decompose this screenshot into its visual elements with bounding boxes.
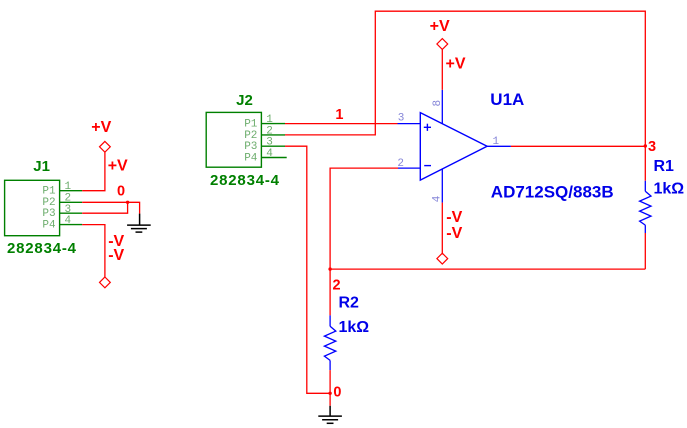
- J1 pin P1 stub: [60, 190, 83, 192]
- svg-text:282834-4: 282834-4: [210, 172, 280, 189]
- svg-text:1: 1: [335, 107, 343, 123]
- wire J2.P3 down to node 0 (bottom): [285, 146, 330, 393]
- op-amp plus symbol: [424, 124, 431, 131]
- connector J2 body: [206, 112, 261, 167]
- svg-text:2: 2: [397, 158, 404, 170]
- svg-text:J2: J2: [236, 92, 253, 109]
- U1A pin 1 stub (output): [487, 145, 511, 147]
- junction node 0 (bottom): [328, 392, 331, 395]
- svg-text:J1: J1: [33, 158, 50, 175]
- wire R1 bottom to node 2 rail: [644, 233, 646, 269]
- svg-text:0: 0: [117, 184, 125, 200]
- power -V symbol at J1 (diamond): [100, 277, 111, 288]
- svg-text:282834-4: 282834-4: [7, 240, 77, 257]
- svg-text:0: 0: [333, 384, 341, 400]
- svg-text:3: 3: [648, 139, 656, 155]
- svg-text:+V: +V: [446, 56, 466, 73]
- svg-text:P1: P1: [244, 119, 258, 131]
- svg-text:P3: P3: [244, 141, 257, 153]
- op-amp U1A triangle: [420, 113, 487, 181]
- J2 pin P1 stub: [261, 123, 285, 125]
- wire U1A pin 8 to +V symbol: [441, 49, 443, 89]
- wire U1A pin 4 to -V symbol: [441, 203, 443, 254]
- J2 pin P4 stub: [261, 157, 286, 159]
- op-amp minus symbol: [424, 165, 431, 167]
- power +V symbol (above U1A, diamond): [437, 39, 448, 50]
- wire U1A output pin 1 to node 3: [511, 145, 645, 147]
- connector J1 body: [5, 180, 60, 235]
- svg-text:P4: P4: [244, 152, 258, 164]
- svg-text:4: 4: [432, 195, 444, 202]
- U1A pin 2 stub: [398, 167, 420, 169]
- svg-text:P2: P2: [244, 130, 257, 142]
- J2 pin P3 stub: [261, 145, 285, 147]
- junction node 2: [328, 267, 331, 270]
- wire node 0 stub to ground: [329, 393, 331, 406]
- wire U1A pin 2 down to node 2: [330, 168, 398, 269]
- J2 pin P2 stub: [261, 134, 285, 136]
- svg-text:1: 1: [493, 136, 500, 148]
- svg-text:P1: P1: [42, 186, 56, 198]
- svg-text:+V: +V: [430, 18, 450, 35]
- wire node 2 down to R2: [329, 269, 331, 315]
- svg-text:-V: -V: [446, 209, 462, 226]
- svg-text:P4: P4: [42, 220, 56, 232]
- svg-text:-V: -V: [446, 225, 462, 242]
- junction node 3: [644, 144, 647, 147]
- wire node 2 to R1 bottom: [330, 268, 645, 270]
- svg-text:1kΩ: 1kΩ: [654, 181, 685, 198]
- resistor R1: [640, 181, 651, 233]
- svg-text:8: 8: [432, 100, 444, 107]
- wire J1.P1 to +V symbol: [82, 152, 105, 191]
- svg-text:3: 3: [65, 204, 72, 216]
- U1A pin 8 stub (V+): [441, 90, 443, 124]
- J1 pin P2 stub: [60, 201, 83, 203]
- svg-text:+V: +V: [108, 158, 128, 175]
- ground symbol (near J1): [127, 214, 151, 233]
- svg-text:P2: P2: [42, 197, 55, 209]
- wire net 1: J2.P1 to U1A pin 3: [285, 123, 398, 125]
- U1A pin 3 stub: [398, 123, 421, 125]
- wire J1.P2 to node 0: [82, 202, 139, 213]
- wire J1.P4 to -V symbol: [82, 225, 105, 277]
- svg-text:U1A: U1A: [490, 90, 524, 109]
- wire R2 bottom to node 0: [329, 370, 331, 393]
- J1 pin P3 stub: [60, 212, 83, 214]
- svg-text:-V: -V: [108, 247, 124, 264]
- J1 pin P4 stub: [60, 224, 83, 226]
- power -V symbol (below U1A, diamond): [437, 253, 448, 264]
- U1A pin 4 stub (V-): [441, 169, 443, 203]
- svg-text:P3: P3: [42, 208, 55, 220]
- wire feedback: J2.P2 up over top rail to output node 3: [285, 11, 645, 181]
- wire J1.P3 to node 0: [82, 202, 127, 213]
- svg-text:AD712SQ/883B: AD712SQ/883B: [491, 182, 614, 201]
- svg-text:R2: R2: [339, 294, 360, 311]
- svg-text:3: 3: [398, 113, 405, 125]
- svg-text:R1: R1: [654, 158, 675, 175]
- svg-text:2: 2: [333, 278, 341, 294]
- junction node 0 (near J1): [126, 201, 129, 204]
- resistor R2: [324, 315, 335, 370]
- svg-text:+V: +V: [91, 119, 111, 136]
- ground symbol (bottom): [318, 406, 342, 424]
- power +V symbol at J1 (diamond): [100, 141, 111, 152]
- svg-text:1kΩ: 1kΩ: [339, 319, 370, 336]
